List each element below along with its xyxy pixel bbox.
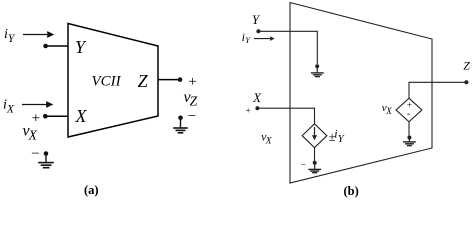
svg-text:iY: iY: [242, 30, 252, 45]
svg-text:+: +: [31, 110, 41, 126]
svg-text:VCII: VCII: [92, 73, 122, 89]
svg-text:Y: Y: [75, 37, 87, 57]
svg-text:vX: vX: [382, 102, 392, 116]
svg-text:(b): (b): [344, 184, 359, 198]
svg-text:Y: Y: [252, 13, 261, 27]
svg-text:iX: iX: [3, 98, 15, 116]
svg-text:iY: iY: [4, 27, 16, 45]
svg-text:−: −: [187, 108, 197, 124]
svg-text:X: X: [252, 90, 262, 105]
svg-text:Z: Z: [138, 71, 149, 91]
svg-text:+: +: [187, 74, 197, 90]
svg-text:(a): (a): [84, 183, 99, 197]
svg-text:-: -: [407, 109, 411, 120]
svg-text:−: −: [30, 146, 40, 162]
svg-text:vX: vX: [261, 130, 273, 147]
svg-text:vZ: vZ: [184, 89, 198, 109]
svg-text:+: +: [245, 105, 251, 115]
svg-text:X: X: [75, 106, 88, 126]
svg-text:−: −: [300, 161, 306, 171]
svg-text:iY: iY: [334, 127, 345, 145]
svg-text:Z: Z: [463, 61, 470, 73]
